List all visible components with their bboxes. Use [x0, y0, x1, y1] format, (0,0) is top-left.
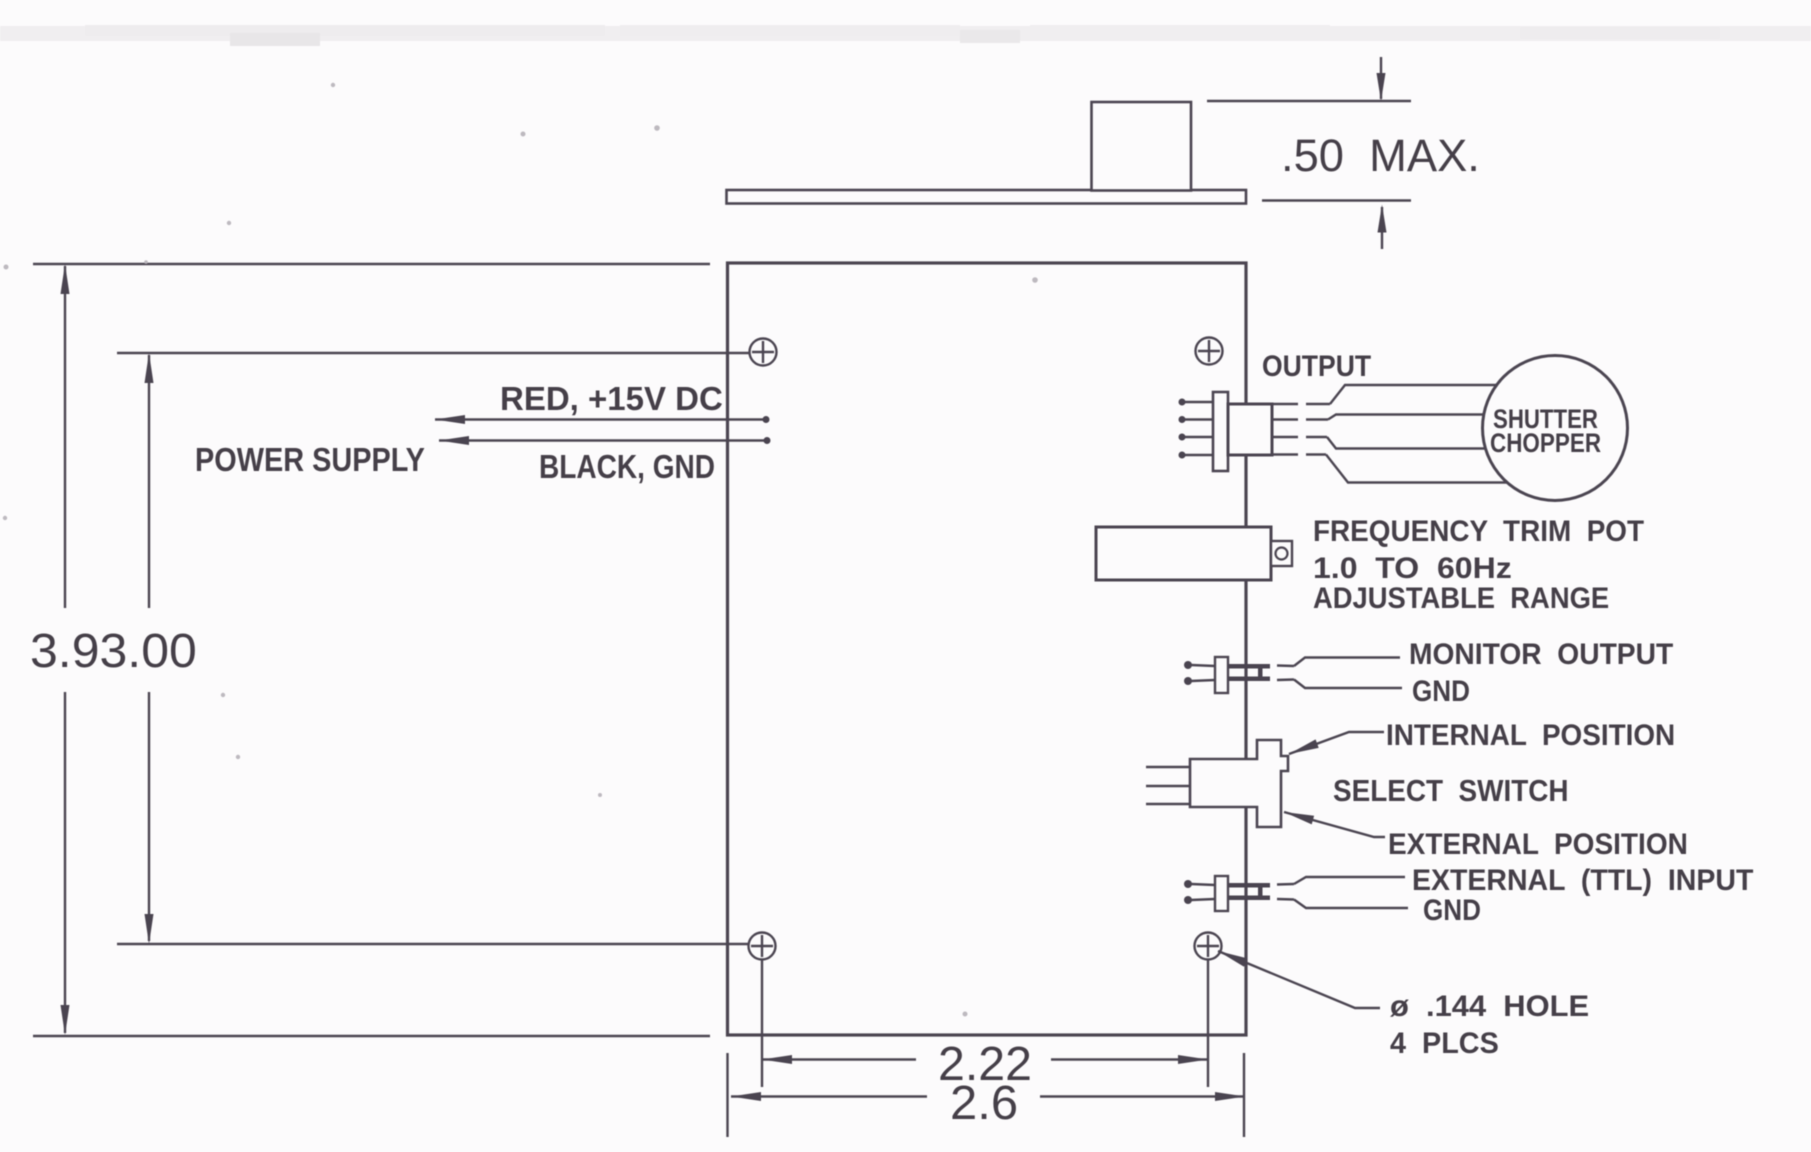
wire RED +15V: [435, 418, 766, 420]
dim 2.22: [762, 1055, 1208, 1064]
dim line .50 bottom: [1262, 199, 1411, 201]
extension line holes bottom: [117, 943, 748, 945]
extension line top left: [33, 263, 710, 266]
hole top-left: [750, 339, 777, 366]
switch lead 3: [1146, 803, 1190, 805]
svg-text:ADJUSTABLE RANGE: ADJUSTABLE RANGE: [1313, 582, 1609, 615]
svg-text:EXTERNAL POSITION: EXTERNAL POSITION: [1388, 828, 1688, 861]
ttl input wire: [1277, 883, 1294, 886]
output wire 4: [1272, 453, 1298, 455]
external position leader: [1284, 812, 1385, 837]
output wire 3: [1272, 436, 1298, 438]
switch lead 1: [1146, 766, 1190, 768]
inner dim line: [148, 355, 150, 608]
scan artifact band: [0, 25, 1811, 46]
svg-text:3.93.00: 3.93.00: [30, 625, 197, 678]
svg-text:MONITOR OUTPUT: MONITOR OUTPUT: [1409, 638, 1673, 671]
monitor output wire: [1277, 664, 1294, 667]
monitor header: [1184, 657, 1270, 693]
side view board bar: [727, 190, 1247, 204]
hole top-right: [1196, 338, 1223, 365]
hole bottom-right: [1195, 933, 1222, 960]
svg-text:1.0 TO 60Hz: 1.0 TO 60Hz: [1313, 551, 1512, 585]
hole callout leader: [1218, 951, 1380, 1008]
extension line bottom left: [33, 1035, 710, 1038]
ttl header: [1184, 876, 1270, 911]
svg-text:2.6: 2.6: [950, 1076, 1018, 1129]
svg-text:FREQUENCY TRIM POT: FREQUENCY TRIM POT: [1313, 515, 1644, 548]
monitor gnd wire: [1277, 678, 1294, 681]
svg-text:POWER SUPPLY: POWER SUPPLY: [195, 441, 425, 478]
svg-text:INTERNAL POSITION: INTERNAL POSITION: [1386, 719, 1675, 752]
select switch body: [1190, 740, 1288, 827]
svg-text:GND: GND: [1412, 674, 1470, 707]
output wire 2: [1272, 418, 1298, 420]
dim 2.6: [731, 1092, 1245, 1101]
side view component: [1092, 102, 1192, 191]
svg-text:CHOPPER: CHOPPER: [1490, 429, 1601, 458]
svg-text:EXTERNAL (TTL) INPUT: EXTERNAL (TTL) INPUT: [1412, 864, 1753, 897]
svg-text:.50 MAX.: .50 MAX.: [1281, 130, 1480, 181]
svg-text:ø .144 HOLE: ø .144 HOLE: [1390, 989, 1589, 1022]
hole bottom-left: [749, 933, 776, 960]
internal position leader: [1289, 732, 1384, 754]
arrow upper .50: [1380, 57, 1382, 99]
ttl gnd wire: [1277, 898, 1294, 901]
dim line .50 top: [1207, 100, 1411, 102]
output connector body: [1213, 392, 1228, 471]
outer dim line 3.93: [64, 266, 66, 608]
extension line holes top: [117, 352, 749, 354]
switch lead 2: [1146, 785, 1190, 787]
main board outline: [728, 263, 1247, 1035]
svg-text:OUTPUT: OUTPUT: [1262, 350, 1371, 384]
output connector pins: [1179, 399, 1215, 459]
freq trim pot: [1096, 527, 1271, 580]
svg-text:BLACK, GND: BLACK, GND: [539, 449, 715, 486]
select switch leads: [1146, 767, 1190, 804]
arrow lower .50: [1381, 207, 1383, 249]
svg-text:4 PLCS: 4 PLCS: [1390, 1026, 1499, 1060]
svg-text:SELECT SWITCH: SELECT SWITCH: [1333, 774, 1569, 809]
shutter chopper circle: [1483, 356, 1628, 501]
wire BLACK GND: [439, 439, 767, 441]
svg-text:RED, +15V DC: RED, +15V DC: [500, 380, 723, 417]
bottom extension lines: [761, 960, 763, 1087]
svg-text:GND: GND: [1423, 893, 1481, 926]
scan specks: [3, 83, 1038, 1017]
output wires: [1272, 385, 1508, 483]
output wire 1: [1272, 403, 1298, 405]
